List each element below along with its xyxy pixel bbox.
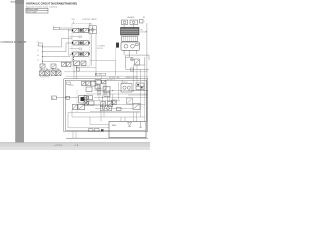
port block top-right bbox=[140, 20, 144, 24]
rotary joint box A bbox=[121, 84, 132, 93]
svg-text:SWIVEL: SWIVEL bbox=[122, 82, 128, 84]
svg-text:MOTOR: MOTOR bbox=[97, 48, 104, 50]
verticals to tank bbox=[101, 111, 137, 122]
svg-text:LINE: LINE bbox=[116, 77, 119, 79]
solenoid block A bbox=[40, 64, 45, 68]
wire pilot L2 bbox=[43, 43, 72, 52]
drain junction dots bbox=[76, 67, 77, 68]
pilot supply pipe bbox=[42, 46, 44, 64]
breather L bbox=[122, 20, 128, 25]
small box below-right of bank bbox=[77, 68, 80, 71]
svg-text:▪▪ 4 1 2: ▪▪ 4 1 2 bbox=[54, 144, 62, 147]
check valve block right of bank bbox=[89, 26, 96, 34]
valve block right-low bbox=[135, 59, 140, 65]
junction dots bbox=[73, 57, 74, 58]
labeled box on wire 2 bbox=[101, 73, 106, 75]
long wire upper horizontal bbox=[64, 71, 148, 73]
pilot valve PV4 bbox=[56, 71, 61, 76]
tank feed pipes bbox=[121, 117, 125, 122]
svg-text:ENGINE: ENGINE bbox=[128, 17, 135, 19]
svg-text:OIL: OIL bbox=[140, 29, 143, 31]
svg-text:TO BOOM CYL: TO BOOM CYL bbox=[105, 79, 116, 81]
wire left of tank lower bbox=[68, 127, 109, 129]
svg-text:Serial number: Serial number bbox=[27, 11, 38, 14]
aux line 1 bbox=[91, 34, 93, 66]
wire gauge-valve run bbox=[126, 57, 145, 65]
bottom-left blocks under bank bbox=[62, 62, 71, 66]
motor circle cluster bbox=[112, 100, 117, 104]
inner box second row bbox=[86, 87, 92, 92]
stack verticals bbox=[97, 84, 106, 96]
svg-text:RETURN: RETURN bbox=[109, 77, 115, 79]
enclosure entry port box bbox=[66, 96, 70, 99]
port marker block bbox=[53, 27, 59, 29]
wire row y90.6 bbox=[94, 90, 148, 92]
wire pilot L4 bbox=[43, 57, 74, 62]
solenoid valve pair 2 bbox=[84, 101, 94, 105]
right stack upper boxes bbox=[95, 80, 101, 89]
svg-text:P1: P1 bbox=[143, 17, 145, 19]
valve box mid bbox=[127, 98, 133, 104]
wire port to bank bbox=[59, 21, 73, 30]
wire pilot L1 bbox=[43, 38, 73, 47]
pilot valve ports bbox=[41, 68, 59, 69]
wire under pump bbox=[126, 55, 149, 69]
pump outlet pipes bbox=[124, 50, 137, 57]
bottom filter box 1 bbox=[89, 129, 94, 132]
pilot valve PV2 bbox=[45, 71, 50, 76]
svg-text:Applicable machine model : KX0: Applicable machine model : KX080-4 bbox=[26, 5, 57, 8]
header table bbox=[26, 8, 48, 13]
right wires horizontal bbox=[128, 91, 148, 96]
aux line 2 bbox=[95, 34, 97, 76]
wire bank out to pipe bbox=[90, 60, 116, 62]
pilot valve PV3 bbox=[51, 71, 56, 76]
svg-text:1 HYDRAULIC CIRCUIT: 1 HYDRAULIC CIRCUIT bbox=[0, 41, 27, 44]
junction dots lower center bbox=[99, 90, 100, 91]
tiny valve inner-left bbox=[67, 82, 71, 85]
svg-text:a2: a2 bbox=[37, 50, 39, 52]
sidebar separator strip bbox=[15, 0, 24, 142]
wire stubs bank left bbox=[70, 30, 80, 49]
svg-text:TO SWING: TO SWING bbox=[97, 46, 106, 48]
branch down from port wire bbox=[68, 30, 70, 56]
svg-text:SV1: SV1 bbox=[72, 19, 75, 21]
bottom filter box 2 bbox=[95, 129, 100, 132]
pilot relief block bbox=[79, 96, 87, 104]
breather R bbox=[130, 20, 138, 25]
main pump unit bbox=[121, 42, 140, 50]
drop to tank wires bbox=[68, 110, 90, 128]
right side pipes bbox=[134, 65, 145, 122]
machine body enclosure inner bbox=[65, 80, 146, 130]
valve spool row 3 bbox=[72, 52, 90, 56]
valve spool row 2 bbox=[72, 41, 90, 45]
engine block bbox=[122, 36, 138, 41]
control valve bank outline bbox=[72, 24, 90, 67]
wire breather to cooler bbox=[124, 25, 134, 28]
bottom status bar bbox=[0, 142, 150, 150]
svg-text:a3: a3 bbox=[37, 55, 39, 57]
svg-text:T: T bbox=[144, 21, 145, 23]
inner small box row bbox=[82, 81, 97, 86]
small box on stack bbox=[104, 92, 110, 97]
accumulator box left bbox=[52, 96, 57, 100]
svg-text:+ 1: + 1 bbox=[75, 143, 79, 147]
svg-text:a1: a1 bbox=[37, 45, 39, 47]
svg-text:a-b: a-b bbox=[37, 42, 39, 44]
wire bank drain right bbox=[77, 66, 97, 68]
solenoid valve pair 1 bbox=[84, 96, 93, 100]
wire row y117 bbox=[72, 116, 145, 118]
bank bottom relief cluster bbox=[74, 61, 87, 65]
sidebar toolbar icons bbox=[11, 1, 13, 3]
pipe from pilot pump down bbox=[115, 48, 117, 61]
wire rows in lower center bbox=[84, 101, 140, 112]
port mark between rows 1-2 bbox=[79, 36, 82, 37]
pilot valve manifold bar bbox=[40, 69, 61, 71]
bottom outer line bbox=[66, 137, 148, 139]
hydraulic tank bbox=[109, 122, 146, 138]
pilot source block bbox=[39, 43, 43, 46]
labeled box on wire bbox=[95, 73, 100, 75]
valve spool row 1 bbox=[72, 28, 90, 32]
wire right top run bbox=[126, 55, 149, 60]
pressure gauge bbox=[131, 58, 134, 61]
wire pilot L3 bbox=[43, 54, 72, 57]
small mark beside pump cluster bbox=[117, 107, 122, 110]
wires bank to enclosure bbox=[74, 65, 77, 79]
small mark mid-right bbox=[131, 68, 134, 71]
svg-text:P: P bbox=[53, 26, 54, 28]
center relay box bbox=[103, 87, 110, 93]
pilot pump solid block bbox=[116, 43, 119, 48]
dashed pilot line vertical bbox=[76, 90, 78, 112]
stack marks bbox=[102, 80, 106, 84]
wire accumulator to enclosure bbox=[57, 97, 79, 99]
lower pump cluster bbox=[101, 106, 112, 111]
right return pipe from top bbox=[146, 23, 148, 122]
travel valve B bbox=[107, 102, 112, 107]
tank fluid symbol bbox=[128, 123, 132, 126]
oil cooler (hatched) bbox=[121, 27, 140, 35]
wire row y97.6 bbox=[94, 97, 148, 99]
port mark between rows 2-3 bbox=[79, 48, 82, 49]
tank suction pipe bbox=[139, 122, 141, 128]
connectors enclosure to bottom line bbox=[73, 131, 76, 138]
long wire row bbox=[80, 104, 145, 106]
wire verticals lower center bbox=[99, 80, 122, 107]
wire row y94 bbox=[86, 93, 148, 95]
pilot valve PV1 bbox=[40, 71, 45, 76]
tiny box center bbox=[97, 88, 101, 91]
bottom dark mark bbox=[101, 129, 104, 131]
svg-text:HYDRAULIC CIRCUIT DIAGRAM(STAN: HYDRAULIC CIRCUIT DIAGRAM(STANDARD) bbox=[26, 2, 77, 6]
svg-text:TANK: TANK bbox=[112, 124, 117, 127]
wire left of tank upper bbox=[90, 123, 109, 125]
pipe junction dots bbox=[42, 46, 43, 47]
travel valve A bbox=[101, 102, 106, 107]
valve box B bbox=[136, 83, 144, 90]
machine body enclosure outer bbox=[64, 79, 148, 132]
wire row y112.5 bbox=[68, 112, 140, 114]
inner-left valve lower pair bbox=[72, 104, 84, 110]
svg-text:a4: a4 bbox=[37, 60, 39, 62]
svg-text:P1 P2 P3 P4: P1 P2 P3 P4 bbox=[40, 77, 49, 79]
svg-text:F1: F1 bbox=[96, 74, 98, 76]
solenoid block B bbox=[51, 64, 56, 69]
right lower component bbox=[133, 104, 140, 110]
return wire above enclosure bbox=[66, 75, 148, 77]
svg-text:CONTROL VALVE: CONTROL VALVE bbox=[82, 18, 98, 21]
